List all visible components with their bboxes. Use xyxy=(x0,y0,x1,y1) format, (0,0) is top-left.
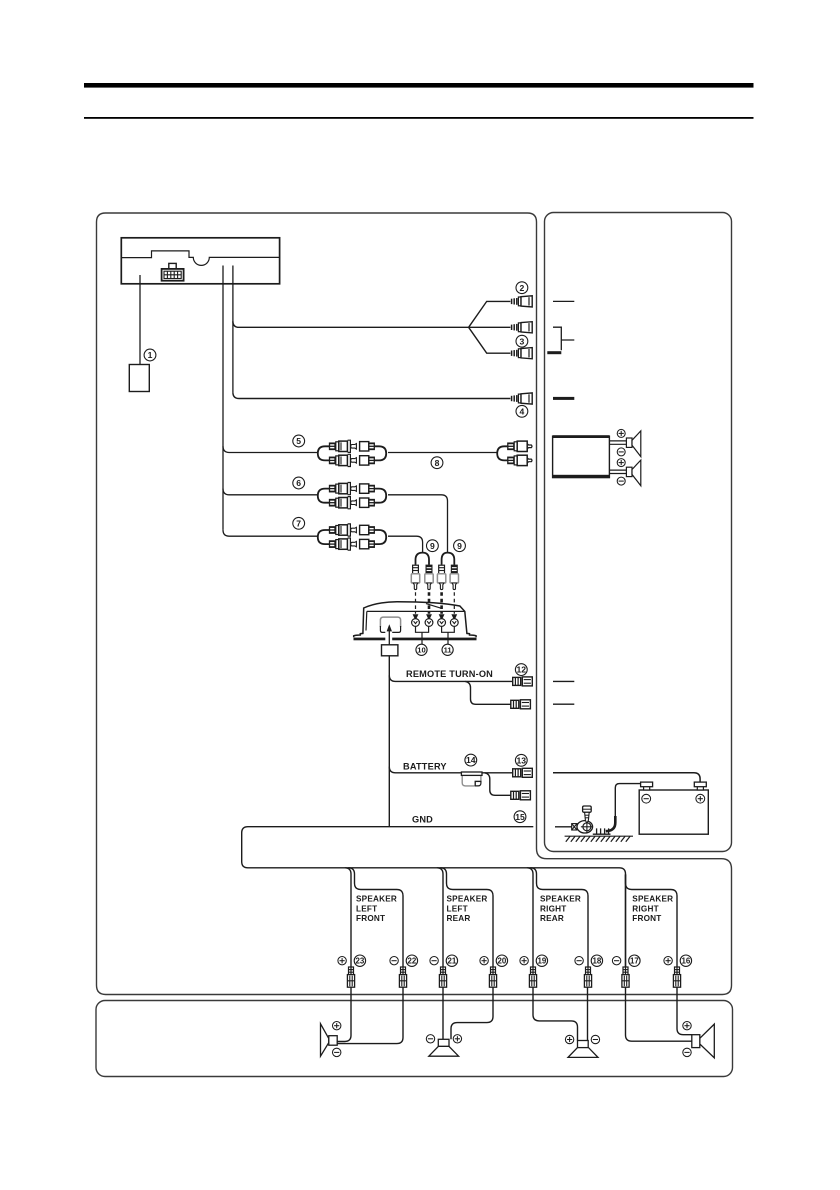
wire from head unit to antenna plug 1 xyxy=(139,275,141,364)
callout circle label circle 11 xyxy=(442,644,453,655)
speaker right front xyxy=(692,1024,715,1058)
callout circle terminal circle 20 xyxy=(496,955,507,966)
speaker spade terminal 17 xyxy=(622,967,629,987)
label SPEAKER RIGHT FRONT xyxy=(632,895,673,923)
svg-text:10: 10 xyxy=(417,646,425,655)
callout circle label circle 13 xyxy=(515,754,527,766)
wire terminal 23 to speaker LF xyxy=(337,987,351,1042)
insertion arrowhead 1 xyxy=(413,614,419,620)
RCA plug (center of fork) xyxy=(512,322,533,333)
svg-text:LEFT: LEFT xyxy=(447,904,468,913)
connector 13 (battery lead) xyxy=(513,768,533,777)
speaker spade terminal 18 xyxy=(584,967,591,987)
callout circle label circle 9 (second) xyxy=(454,540,466,552)
callout circle terminal circle 16 xyxy=(680,955,691,966)
svg-text:22: 22 xyxy=(408,957,417,966)
amplifier unit body xyxy=(354,602,476,637)
speaker wire left rear + xyxy=(437,868,443,967)
callout circle terminal circle 19 xyxy=(536,955,547,966)
right panel outline xyxy=(545,213,732,852)
svg-text:8: 8 xyxy=(435,458,440,468)
minus terminal symbol xyxy=(430,957,438,965)
svg-text:REMOTE TURN-ON: REMOTE TURN-ON xyxy=(406,669,493,679)
plus terminal symbol xyxy=(520,957,528,965)
svg-text:2: 2 xyxy=(520,283,525,293)
callout circle terminal circle 21 xyxy=(446,955,457,966)
svg-text:7: 7 xyxy=(296,518,301,528)
component box 1 (antenna adapter) xyxy=(129,365,149,392)
svg-text:SPEAKER: SPEAKER xyxy=(540,895,581,904)
amp input jack 1 xyxy=(412,619,420,627)
speaker wire left front - xyxy=(348,868,403,967)
speaker spade terminal 19 xyxy=(529,967,536,987)
svg-text:20: 20 xyxy=(498,957,507,966)
svg-text:SPEAKER: SPEAKER xyxy=(632,895,673,904)
chassis ground surface (hatched) xyxy=(565,836,633,842)
plus terminal symbol xyxy=(333,1021,341,1029)
car battery xyxy=(639,782,708,834)
plus terminal symbol xyxy=(617,459,625,467)
head unit lead wire (left, to RCA rows) xyxy=(222,266,224,530)
svg-text:6: 6 xyxy=(296,478,301,488)
wire 8 (extension cable run) xyxy=(388,452,497,454)
RCA extension pair 5 xyxy=(318,440,386,466)
RCA plug 2 (to left speaker output) xyxy=(512,296,533,307)
speaker wire right rear - xyxy=(530,868,588,967)
mounting screw xyxy=(583,806,592,823)
svg-text:15: 15 xyxy=(515,812,525,822)
page top thin rule xyxy=(84,117,754,119)
minus terminal symbol xyxy=(390,957,398,965)
dashed insertion line 4 xyxy=(453,592,455,614)
callout circle label circle 6 xyxy=(293,477,305,489)
plus terminal symbol xyxy=(683,1021,691,1029)
wire to plugs 2 and 3 (with fork) xyxy=(233,301,511,353)
wire terminal 17 to speaker RF xyxy=(626,987,692,1041)
jack pair bracket 10 xyxy=(416,627,429,645)
battery feed wire xyxy=(553,773,700,783)
dashed insertion line 1 xyxy=(415,592,417,614)
callout circle terminal circle 17 xyxy=(629,955,640,966)
minus terminal symbol xyxy=(612,957,620,965)
callout circle label circle 7 xyxy=(293,517,305,529)
wire row 7 from head unit lead xyxy=(223,530,317,536)
amp input jack 2 xyxy=(425,619,433,627)
thick mark under bracket xyxy=(547,351,561,354)
jack pair bracket 11 xyxy=(442,627,455,645)
insertion arrowhead 4 xyxy=(451,614,457,620)
GND wire xyxy=(242,827,626,967)
wire terminal 19 to speaker RR xyxy=(533,987,578,1041)
speaker wire left rear - xyxy=(440,868,493,967)
callout circle terminal circle 23 xyxy=(354,955,365,966)
RCA plug 3 (to right speaker output) xyxy=(512,348,533,359)
plus terminal symbol xyxy=(480,957,488,965)
head unit rear connector socket xyxy=(162,263,184,280)
svg-text:BATTERY: BATTERY xyxy=(403,761,447,771)
wire row 6 down to fork xyxy=(388,495,448,552)
connector (battery lead mate) xyxy=(511,791,531,800)
callout circle label circle 2 xyxy=(516,282,528,294)
minus terminal symbol xyxy=(683,1048,691,1056)
speaker spade terminal 21 xyxy=(439,967,446,987)
callout circle label circle 10 xyxy=(416,644,427,655)
bracket mark for plugs 2/3 xyxy=(553,327,574,350)
minus terminal symbol xyxy=(426,1035,434,1043)
wire row 5 from head unit lead xyxy=(223,446,317,452)
svg-text:17: 17 xyxy=(630,957,639,966)
bottom speakers panel outline xyxy=(96,1001,733,1077)
ring terminal eye xyxy=(577,821,593,833)
RCA extension pair 6 xyxy=(318,483,386,509)
fork of cable 9 (left pair) xyxy=(416,553,430,565)
svg-text:9: 9 xyxy=(430,541,435,551)
BATTERY wire xyxy=(389,767,513,773)
leader mark for plug 2 xyxy=(553,300,574,302)
svg-text:3: 3 xyxy=(520,336,525,346)
amplifier bottom flange xyxy=(354,638,386,641)
callout circle label circle 4 xyxy=(516,405,528,417)
ring terminal crimp xyxy=(572,824,577,830)
callout circle label circle 15 xyxy=(514,811,526,823)
svg-text:13: 13 xyxy=(517,755,527,765)
callout circle label circle 8 xyxy=(431,457,443,469)
speaker box lead pair upper xyxy=(609,441,626,444)
speaker spade terminal 22 xyxy=(399,967,406,987)
speaker wire right front + (bus end) xyxy=(625,874,627,967)
wire row 7 down to fork xyxy=(388,536,423,552)
minus terminal symbol xyxy=(617,477,625,485)
plus terminal symbol xyxy=(565,1035,573,1043)
svg-text:14: 14 xyxy=(466,755,476,765)
wire to plug 4 xyxy=(233,392,511,398)
label SPEAKER LEFT REAR xyxy=(447,895,488,923)
battery branch wire xyxy=(485,773,512,796)
chassis bracket (comb) xyxy=(593,828,611,834)
label SPEAKER LEFT FRONT xyxy=(356,895,397,923)
RCA extension pair 7 xyxy=(318,524,386,550)
amplifier power connector xyxy=(382,645,398,656)
svg-text:9: 9 xyxy=(457,541,462,551)
svg-text:FRONT: FRONT xyxy=(356,914,385,923)
battery negative cable to chassis (thick) xyxy=(606,816,616,831)
left panel outline (step shaped) xyxy=(97,213,732,995)
REMOTE TURN-ON wire xyxy=(389,675,513,681)
wire terminal 16 to speaker RF xyxy=(677,987,692,1035)
svg-text:RIGHT: RIGHT xyxy=(632,904,658,913)
plus terminal symbol xyxy=(338,957,346,965)
battery negative cable xyxy=(615,784,640,818)
RCA plug 9-4 (red) xyxy=(450,565,458,589)
fuse holder 14 xyxy=(461,772,482,786)
svg-text:23: 23 xyxy=(356,957,365,966)
plus terminal symbol xyxy=(453,1035,461,1043)
minus terminal symbol xyxy=(575,957,583,965)
svg-text:RIGHT: RIGHT xyxy=(540,904,566,913)
plus terminal symbol xyxy=(696,794,705,803)
speaker box lead pair lower xyxy=(609,470,626,473)
powered speaker box (destination of cable 8) xyxy=(553,435,610,477)
speaker spade terminal 23 xyxy=(347,967,354,987)
svg-text:16: 16 xyxy=(682,957,691,966)
head unit U1 (source unit chassis) xyxy=(121,238,279,284)
svg-text:19: 19 xyxy=(538,957,547,966)
insertion arrowhead 3 xyxy=(439,614,445,620)
minus terminal symbol xyxy=(642,794,651,803)
dashed insertion line 2 xyxy=(428,592,431,614)
speaker left front xyxy=(321,1024,338,1056)
RCA plugs of cable 8 into amplifier box xyxy=(497,441,532,466)
svg-text:1: 1 xyxy=(148,350,153,360)
fork of cable 9 (right pair) xyxy=(442,553,455,565)
thick mark for plug 4 xyxy=(553,397,574,400)
svg-text:4: 4 xyxy=(520,406,525,416)
head unit lead wire (right, to plugs 2-4) xyxy=(232,266,234,393)
speaker wire left front + xyxy=(345,868,351,967)
amp input jack 3 xyxy=(438,619,446,627)
svg-text:12: 12 xyxy=(517,665,527,675)
leader mark remote 2 xyxy=(553,703,574,705)
wire terminal 21 to speaker LR xyxy=(442,987,444,1039)
svg-text:5: 5 xyxy=(296,436,301,446)
leader mark remote 1 xyxy=(553,680,574,682)
svg-text:SPEAKER: SPEAKER xyxy=(356,895,397,904)
minus terminal symbol xyxy=(333,1048,341,1056)
small speaker upper xyxy=(626,431,640,457)
speaker wire right rear + xyxy=(527,868,533,967)
insertion arrowhead 2 xyxy=(426,614,432,620)
remote branch wire xyxy=(465,681,511,704)
svg-text:21: 21 xyxy=(448,957,457,966)
speaker spade terminal 16 xyxy=(673,967,680,987)
callout circle terminal circle 18 xyxy=(591,955,602,966)
svg-text:LEFT: LEFT xyxy=(356,904,377,913)
amplifier terminal cover opening xyxy=(380,617,400,632)
plus terminal symbol xyxy=(664,957,672,965)
small speaker lower xyxy=(626,460,640,486)
speaker wire right front - xyxy=(626,875,678,967)
RCA plug 9-1 (white) xyxy=(411,565,419,589)
speaker spade terminal 20 xyxy=(489,967,496,987)
callout circle label circle 14 xyxy=(465,754,477,766)
svg-text:SPEAKER: SPEAKER xyxy=(447,895,488,904)
main power harness wire xyxy=(388,656,390,827)
svg-text:FRONT: FRONT xyxy=(632,914,661,923)
minus terminal symbol xyxy=(617,448,625,456)
RCA plug 4 xyxy=(512,393,533,404)
ground wire in right panel xyxy=(555,826,572,828)
wire terminal 20 to speaker LR xyxy=(451,987,493,1039)
callout circle label circle 3 xyxy=(516,335,528,347)
plus terminal symbol xyxy=(617,429,625,437)
arrow into terminal cover xyxy=(388,631,390,645)
RCA plug 9-3 (white) xyxy=(437,565,445,589)
label SPEAKER RIGHT REAR xyxy=(540,895,581,923)
dashed insertion line 3 xyxy=(440,592,443,614)
callout circle label circle 1 xyxy=(144,349,156,361)
wire terminal 18 to speaker RR xyxy=(587,987,589,1041)
amp input jack 4 xyxy=(450,619,458,627)
svg-text:GND: GND xyxy=(412,814,433,824)
connector (remote lead mate) xyxy=(511,700,531,709)
page top thick rule xyxy=(84,83,754,88)
svg-text:11: 11 xyxy=(444,646,453,655)
minus terminal symbol xyxy=(591,1035,599,1043)
speaker left rear xyxy=(429,1039,459,1056)
wire row 6 from head unit lead xyxy=(223,489,317,495)
connector 12 (remote lead) xyxy=(513,677,533,686)
callout circle terminal circle 22 xyxy=(406,955,417,966)
speaker right rear xyxy=(568,1041,598,1058)
wire terminal 22 to speaker LF xyxy=(337,987,403,1044)
svg-text:18: 18 xyxy=(593,957,602,966)
svg-text:REAR: REAR xyxy=(540,914,564,923)
svg-text:REAR: REAR xyxy=(447,914,471,923)
callout circle label circle 12 xyxy=(515,664,527,676)
callout circle label circle 5 xyxy=(293,435,305,447)
callout circle label circle 9 xyxy=(427,540,439,552)
RCA plug 9-2 (red) xyxy=(425,565,433,589)
